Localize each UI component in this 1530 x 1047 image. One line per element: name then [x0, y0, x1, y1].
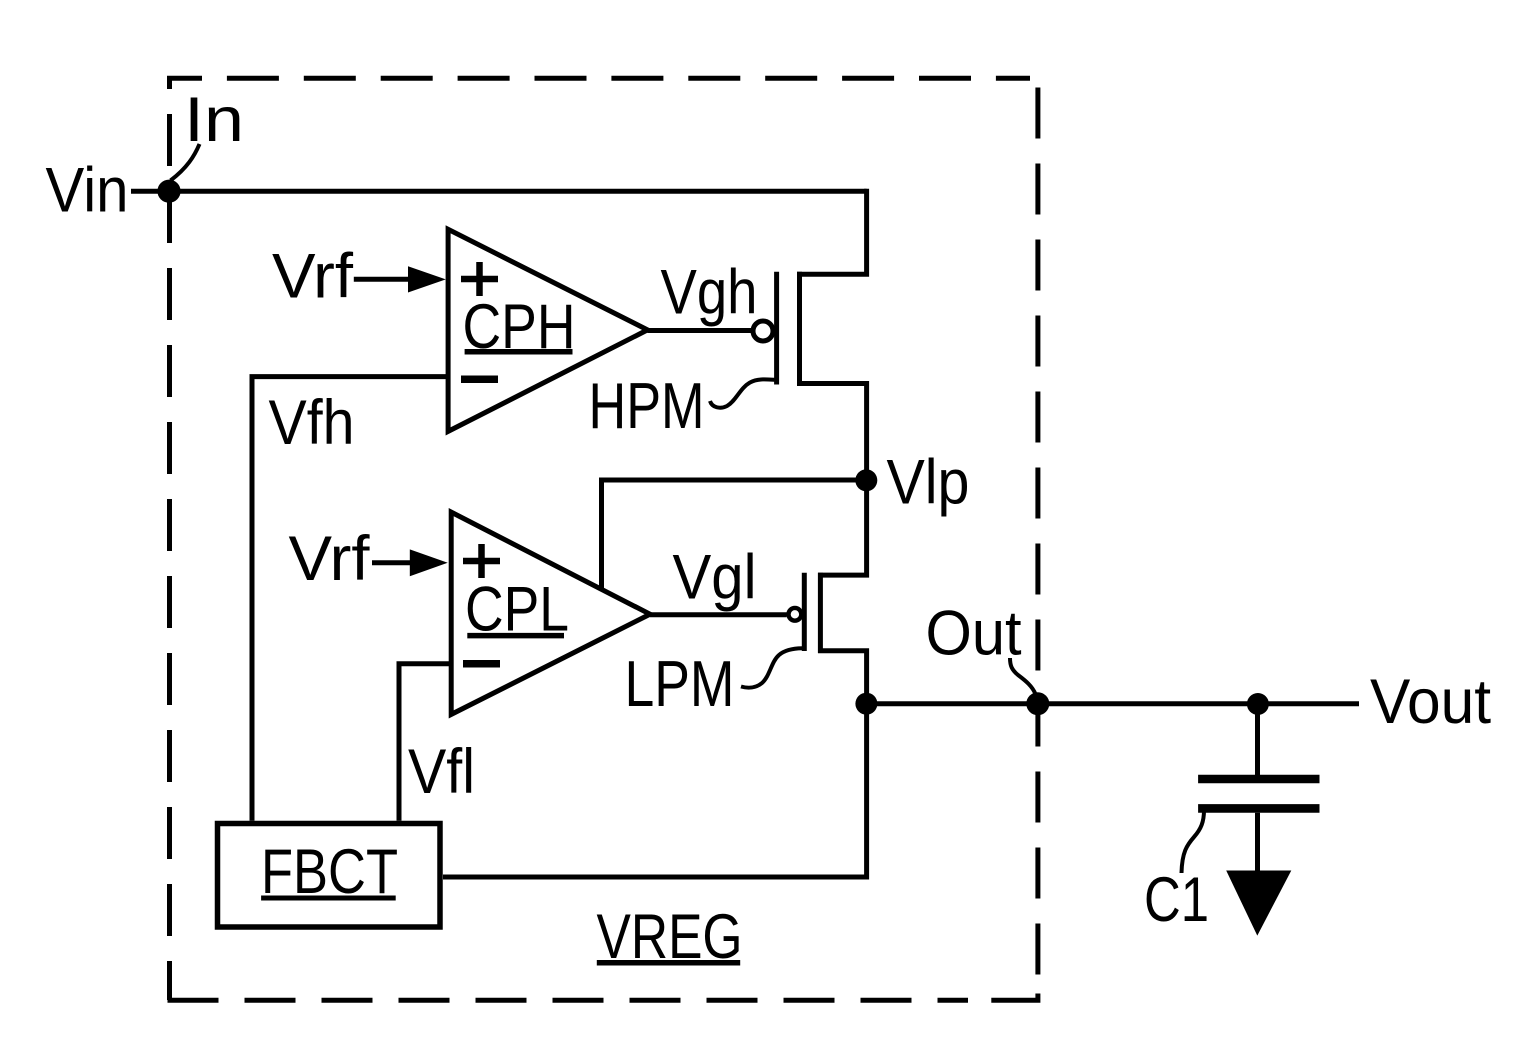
wire Vlp to CPL supply [602, 480, 867, 588]
node Out on border [1026, 692, 1049, 715]
label HPM [589, 369, 705, 442]
svg-text:Vlp: Vlp [887, 448, 970, 518]
label Vfl [408, 737, 475, 807]
capacitor C1 top plate [1198, 775, 1319, 784]
label Out [926, 599, 1022, 669]
lead-line squiggle from In label to node [171, 144, 200, 181]
transistor LPM (PMOS) gate bubble [789, 608, 802, 621]
svg-text:LPM: LPM [625, 647, 735, 720]
wire CPL minus input (Vfl) [399, 664, 451, 821]
wire Vin top rail [169, 189, 867, 194]
VREG dashed box top border [167, 76, 1030, 81]
svg-text:C1: C1 [1144, 865, 1209, 935]
svg-text:In: In [184, 85, 244, 155]
transistor HPM channel bar [797, 272, 802, 386]
label VREG (underlined) [597, 902, 743, 972]
node In (junction dot on border) [157, 180, 180, 203]
block FBCT [218, 824, 441, 928]
svg-text:Vfh: Vfh [269, 388, 355, 458]
lead-line squiggle from HPM label to gate [710, 379, 775, 407]
label CPH (underlined) [463, 292, 576, 362]
label In [184, 85, 244, 155]
CPH plus input symbol [461, 262, 498, 296]
arrow Vrf into CPL plus input [372, 549, 448, 576]
node Out junction dot (internal) [855, 693, 877, 715]
VREG dashed box bottom border [168, 994, 1038, 1001]
label FBCT (underlined) [261, 837, 398, 907]
wire output line to Vout [866, 701, 1359, 706]
CPL minus input symbol [463, 660, 500, 668]
transistor LPM gate bar [802, 573, 807, 651]
wire FBCT output to Out node [443, 704, 867, 877]
op-amp CPL triangle [451, 512, 650, 714]
ground symbol (filled triangle) [1226, 871, 1291, 936]
capacitor C1 bottom lead [1255, 813, 1260, 872]
svg-text:Out: Out [926, 599, 1022, 669]
svg-text:Vgh: Vgh [661, 258, 758, 328]
svg-text:Vrf: Vrf [289, 524, 371, 594]
VREG dashed box right border [1035, 78, 1040, 998]
CPH minus input symbol [461, 375, 498, 383]
arrow Vrf into CPH plus input [354, 266, 446, 292]
wire CPL output to LPM gate [650, 612, 787, 617]
wire Vlp down to LPM source [818, 480, 867, 575]
transistor HPM gate bar [774, 272, 779, 385]
transistor HPM (PMOS) gate bubble [753, 321, 773, 341]
label Vfh [269, 388, 355, 458]
label C1 [1144, 865, 1209, 935]
svg-text:HPM: HPM [589, 369, 705, 442]
capacitor C1 top lead [1255, 704, 1260, 775]
label CPL (underlined) [465, 574, 569, 644]
transistor LPM drain stub down to node Out [818, 651, 867, 704]
label Vin [46, 155, 129, 225]
label Vout [1370, 667, 1491, 737]
lead-line squiggle from C1 label to capacitor [1182, 810, 1205, 873]
node Vlp junction dot [855, 469, 877, 491]
VREG dashed box left border [167, 78, 172, 1000]
svg-text:Vin: Vin [46, 155, 129, 225]
label Vrf (upper) [272, 242, 354, 312]
svg-text:Vout: Vout [1370, 667, 1491, 737]
wire top rail down to HPM source [797, 189, 867, 275]
CPL plus input symbol [463, 544, 500, 578]
wire Vin stub [131, 189, 169, 194]
svg-text:Vgl: Vgl [673, 543, 757, 613]
svg-text:Vrf: Vrf [272, 242, 354, 312]
label Vrf (lower) [289, 524, 371, 594]
lead-line squiggle from LPM label to gate [741, 648, 802, 687]
wire CPH minus input (Vfh) [252, 377, 448, 821]
wire CPH output to HPM gate [648, 328, 752, 333]
label Vlp [887, 448, 970, 518]
transistor HPM drain stub down to node Vlp [797, 384, 867, 481]
lead-line squiggle from Out label to border node [1010, 658, 1036, 694]
transistor LPM channel bar [818, 573, 823, 653]
svg-text:Vfl: Vfl [408, 737, 475, 807]
label LPM [625, 647, 735, 720]
label Vgl [673, 543, 757, 613]
capacitor C1 bottom plate [1198, 804, 1319, 813]
label Vgh [661, 258, 758, 328]
node C1 junction dot [1247, 693, 1269, 715]
op-amp CPH triangle [448, 229, 647, 431]
